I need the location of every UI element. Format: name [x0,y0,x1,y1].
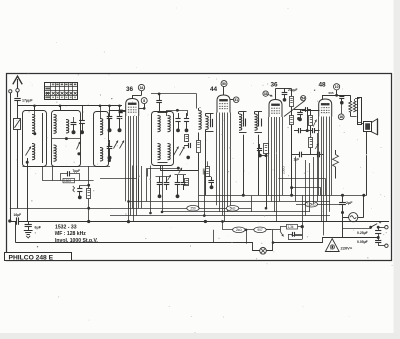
circled 10 [334,84,340,90]
wire terminal plus [378,227,385,229]
series capacitor 16uF [17,217,18,225]
circled 8 [141,98,147,104]
junction dot left mid [108,159,111,162]
wire L6 down [243,135,245,196]
wire L7 down [258,135,260,196]
wire down to switch [342,217,344,237]
electrolytic 6uF [28,221,30,224]
coil T1 secondary top [168,116,171,132]
coil L6 [239,114,242,130]
dot avc [297,117,300,120]
trimmer arrows V1 grid [114,141,119,149]
oscillator coil L4 [199,111,202,130]
output transformer core [358,98,362,125]
wire v 291 up [291,125,293,195]
switch wave band box1 [26,147,32,156]
pilot lamp [260,248,267,255]
wire h 212 [162,211,310,213]
wire V3 plate top [275,89,277,100]
svg-text:0.25μF: 0.25μF [357,231,368,235]
svg-text:10: 10 [335,85,339,89]
capacitor series C19 [299,152,301,158]
dot C21 [340,101,344,105]
svg-text:5kΩ: 5kΩ [230,207,236,211]
mains switch [369,226,372,229]
wire ovals left up [222,222,224,230]
capacitor tone [77,188,82,190]
wire ground lead [10,93,12,221]
wire 302 up [302,195,304,226]
svg-text:8: 8 [143,99,145,103]
coil L3 secondary [100,148,103,161]
wire osc top [198,108,200,111]
wire output loop A [279,178,326,180]
svg-text:36: 36 [126,86,134,93]
speaker magnet [364,122,372,132]
svg-text:16: 16 [339,115,343,119]
svg-text:Invol. 1000 St.p.V.: Invol. 1000 St.p.V. [55,238,98,244]
wire v 305 [305,160,307,216]
resistor 150 osc [197,141,201,153]
resistor 2M upper [290,97,294,107]
scan shadow right edge [394,0,400,339]
rectifier circle sine [349,213,358,222]
wire v 136 [136,166,138,179]
capacitor C7 lower [107,146,113,148]
wire 235 link [292,235,303,237]
wire h 215 [110,215,330,217]
wire v 313 [313,157,315,204]
svg-text:6μF: 6μF [35,226,42,230]
resistor label BW [185,135,189,142]
capacitor cathode V1b [164,182,170,184]
dot C15 [298,118,302,122]
coil L2 primary [54,115,57,134]
wire dip right up [272,230,274,243]
dot C17 [306,129,309,132]
wire v 251 [251,196,253,212]
coil L2 tertiary [66,120,69,133]
padder dot C6 [118,128,122,132]
wire trimmer up [73,117,75,123]
svg-text:50: 50 [222,82,226,86]
wire terminal minus [378,245,385,247]
wire cathode feed [148,168,178,170]
capacitor C15 [297,112,303,114]
wire v 133 [132,166,134,209]
title box [5,253,72,261]
arrow circle33 [268,95,272,97]
circled 33 [263,91,268,96]
svg-text:2μF: 2μF [346,201,353,205]
wire right of C16 [310,110,312,116]
oval resistor 250 [187,205,199,211]
wire chain mid [310,126,312,138]
wire box2 mid [52,138,80,140]
svg-text:36: 36 [271,82,279,89]
junction osc [186,156,190,160]
wire V4 plate [322,95,351,97]
antenna terminal [16,89,19,92]
scan shadow bottom edge [0,333,400,339]
tube V2 44 [217,95,230,113]
coil L2 secondary [54,145,57,161]
svg-text:250: 250 [190,207,196,211]
wire resistor chain V3 [291,89,293,97]
dot cathode V2a [176,194,180,198]
coil L1 primary [32,115,35,134]
ground terminal left [9,90,12,93]
switch tone [73,186,75,192]
zigzag resistor field coil [333,155,339,167]
oval resistor 2k [233,227,245,233]
circled 34 [138,84,144,90]
wire V4 left lead [302,110,320,112]
svg-text:34: 34 [140,86,144,90]
wire hv horizontal [343,195,367,197]
capacitor plate V1 [156,100,162,102]
tube socket table [44,82,77,99]
svg-text:1532 - 33: 1532 - 33 [55,225,77,231]
wire osc resistor down [198,153,200,171]
wire under V2 [260,155,267,157]
wire v 162 down [162,166,164,212]
wire h 204 right [296,204,343,206]
capacitor trimmer C6 [119,106,121,116]
wire T1 internal top [158,112,168,114]
circled 54 [301,96,306,101]
chassis bus wire [10,221,389,223]
capacitor 7uuF [67,171,69,176]
svg-text:MF : 128 kHz: MF : 128 kHz [55,231,86,237]
capacitor 0.25uF [375,230,381,232]
capacitor trimmer box2 [71,122,77,124]
padder dot east [80,130,84,134]
switch osc a [174,147,179,156]
coil T1 secondary bottom [168,144,171,160]
ground symbol [24,230,33,232]
wire heater run [16,243,260,251]
wire speaker down [366,132,368,195]
speaker cone [372,119,378,135]
capacitor cathode V2b [181,182,186,184]
coil box L1 shield [23,111,47,167]
wire v 150 [150,166,152,214]
circled 50 [221,81,227,87]
padder dot box2 [72,130,76,134]
svg-text:PHILCO 248 E: PHILCO 248 E [9,255,54,262]
tube V1 36 [126,99,139,117]
tube V4 48 [319,99,332,117]
resistor 250 under V2 [264,144,269,154]
coil box L2 shield [52,111,81,167]
svg-text:33: 33 [264,92,268,96]
output transformer T2 secondary [353,102,356,113]
svg-text:31: 31 [234,98,238,102]
dot tone [78,196,82,200]
wire T2 bottom to speaker [358,123,362,125]
wire arch over IF [167,111,188,117]
wire rectifier left [342,213,344,218]
circled 31 [233,97,239,103]
dot cathode V1a [158,194,162,198]
wire loop C24 [288,234,290,239]
svg-text:1,5kΩ: 1,5kΩ [307,203,316,207]
coil L5 [206,116,209,129]
resistor 500 chain [309,116,313,126]
resistor tone box [87,189,91,199]
wire v 213 lamp left [213,230,215,243]
capacitor cathode V1a [157,182,163,184]
svg-text:907: 907 [257,228,263,232]
tube V3 36 [269,100,282,118]
svg-text:1μF: 1μF [294,158,300,162]
wire output loop B [292,187,321,189]
capacitor trimmer east [82,106,84,121]
output transformer T2 primary [349,102,352,113]
capacitor T1 trim 1 [175,118,180,120]
junction dots crossings [203,214,206,217]
tap arrow a [313,120,316,127]
resistor 250 chain [309,138,313,148]
coil L7 [255,114,258,130]
wire grid bus V4 [307,110,309,131]
wire cathode V1 link [156,176,170,178]
wire V2 grid right [230,99,233,101]
svg-text:250Ω: 250Ω [282,166,286,174]
capacitor osc grid [188,143,190,148]
wire osc bottom link [161,170,199,172]
svg-text:44: 44 [210,86,218,93]
wire h 208 [10,208,251,210]
wire v 141 [141,166,143,208]
switch osc b [180,147,185,156]
capacitor T1 trim 2 [184,118,189,120]
svg-text:48: 48 [319,82,327,89]
wire lamp feed [246,230,248,244]
IF transformer T1 shield [152,112,174,166]
capacitor 17uuF antenna [14,98,20,100]
wire v 138 [138,179,140,208]
oval resistor 1.5k right [305,201,317,207]
wire v 295 [295,157,297,202]
wire v 204 osc [204,171,206,216]
wire v 146 [146,168,148,201]
wire arrester to bus [17,129,19,208]
dot grid leak [210,185,214,189]
wire grid leak top [207,161,209,167]
padder dot C5 [108,128,112,132]
svg-text:005: 005 [329,91,334,95]
wire antenna top horizontal [18,105,123,107]
capacitor trimmer C5 [109,106,111,116]
wire cathode V2 link [175,174,187,176]
capacitor pair C18 [312,128,314,133]
switch cathode V1 [168,175,171,181]
wire dot to circled16 [341,104,343,113]
wire circle8 down [144,104,146,109]
dot under 20uuF [283,98,287,102]
switch 1.3k [280,227,282,231]
wire stub to coil box 1 [34,106,36,111]
wire h 195 [199,195,343,197]
resistor cathode box [185,179,189,186]
wire circled10 down [336,90,338,95]
warning triangle [325,239,339,252]
wire L5 down [205,132,207,196]
padder dot C7 [108,156,112,160]
resistor 1500 box [63,178,75,182]
svg-text:7μμF: 7μμF [73,169,81,173]
antenna arrow [17,79,19,88]
capacitor C12 [258,119,260,127]
wire antenna down [17,100,19,118]
capacitor grid leak [208,180,214,182]
svg-text:17μμF: 17μμF [22,99,33,103]
wire box1 top stub [34,106,36,115]
border frame [7,74,392,261]
svg-text:+: + [379,220,382,225]
wire v 198 osc down [198,171,200,208]
wire plate run V1 [151,93,197,95]
wire chain lower [310,148,312,155]
wire box1 bottom [27,158,29,166]
terminal minus [385,244,388,247]
dot 1.3k [301,225,304,228]
capacitor C21 [339,96,344,98]
label 1M ohm [203,169,205,175]
wire osc coil to resistor [198,133,200,141]
grid cap blob V1 [119,110,123,114]
wire T2 top [350,95,352,101]
junction dots under V2 [258,154,262,158]
lightning arrester [14,119,21,130]
wire tone vertical [88,166,90,188]
padder dot T1a [176,129,180,133]
capacitor C11 [243,119,245,127]
svg-text:16μF: 16μF [14,213,22,217]
resistor 1.3k box [287,224,298,229]
svg-text:1,3k: 1,3k [288,225,294,229]
switch cathode V2 [179,168,183,174]
wire V1 top to circle [132,95,134,98]
switch box2 [77,142,81,150]
wire rectifier right [358,217,364,219]
coil L3 primary [100,119,103,135]
wire box bottoms [23,166,111,168]
capacitor C24 [292,232,294,237]
wire box1 to bus [27,166,29,221]
wire trimmer down [73,125,75,131]
avc diagonal [284,101,305,117]
capacitor cathode V2a [175,182,181,184]
oval resistor 5k [226,206,238,212]
capacitor series C20 [317,152,319,158]
capacitor C13 [257,148,262,150]
wire T1 internal bottom [158,162,168,164]
wire cap loop [61,174,68,181]
junction box2 bottom [77,152,80,155]
wire box1 mid junction [33,132,36,135]
oval resistor 907 [254,227,266,233]
resistor 2M lower [290,116,294,125]
coil T1 primary bottom [158,144,161,160]
wire v 128 [128,201,130,221]
svg-text:220V=: 220V= [341,246,353,251]
wire 1.3k run [280,226,302,228]
wire h 201 [129,201,331,203]
capacitor tuning C10 [210,119,212,127]
circled 16 [338,114,344,120]
coil box L3 shield [94,112,109,167]
padder dot T1b [185,129,189,133]
resistor 1M osc [206,167,210,177]
wire box3 top stub [100,106,102,119]
capacitor 2uF [342,195,344,202]
wire h 229 ovals [223,229,272,231]
wire left end up [15,222,17,243]
svg-text:0.05μF: 0.05μF [357,240,368,244]
capacitor 20uuF [282,92,288,94]
wire ovals right run [267,229,281,231]
wire V2 top [223,87,225,95]
wire inside box1 right [42,113,44,163]
terminal plus [385,226,388,229]
tap arrow b [315,144,318,150]
wire 1500 run [42,180,93,182]
capacitor series C16 [305,107,307,112]
capacitor pair C17 [298,128,300,133]
svg-text:54: 54 [301,96,305,100]
svg-text:2kΩ: 2kΩ [236,228,242,232]
wire v 309 [309,163,311,212]
coil T1 primary top [158,116,161,132]
svg-text:1500: 1500 [64,179,71,183]
coil L1 secondary [32,144,35,160]
wire V1 left grid [109,110,126,112]
wire stub to coil box 2 [60,106,62,111]
junction box1 [26,161,29,164]
capacitor 0.05uF [375,240,381,242]
wire switch feed [343,228,371,230]
wire plate run down osc [196,94,198,109]
wire v 317 [317,133,319,201]
